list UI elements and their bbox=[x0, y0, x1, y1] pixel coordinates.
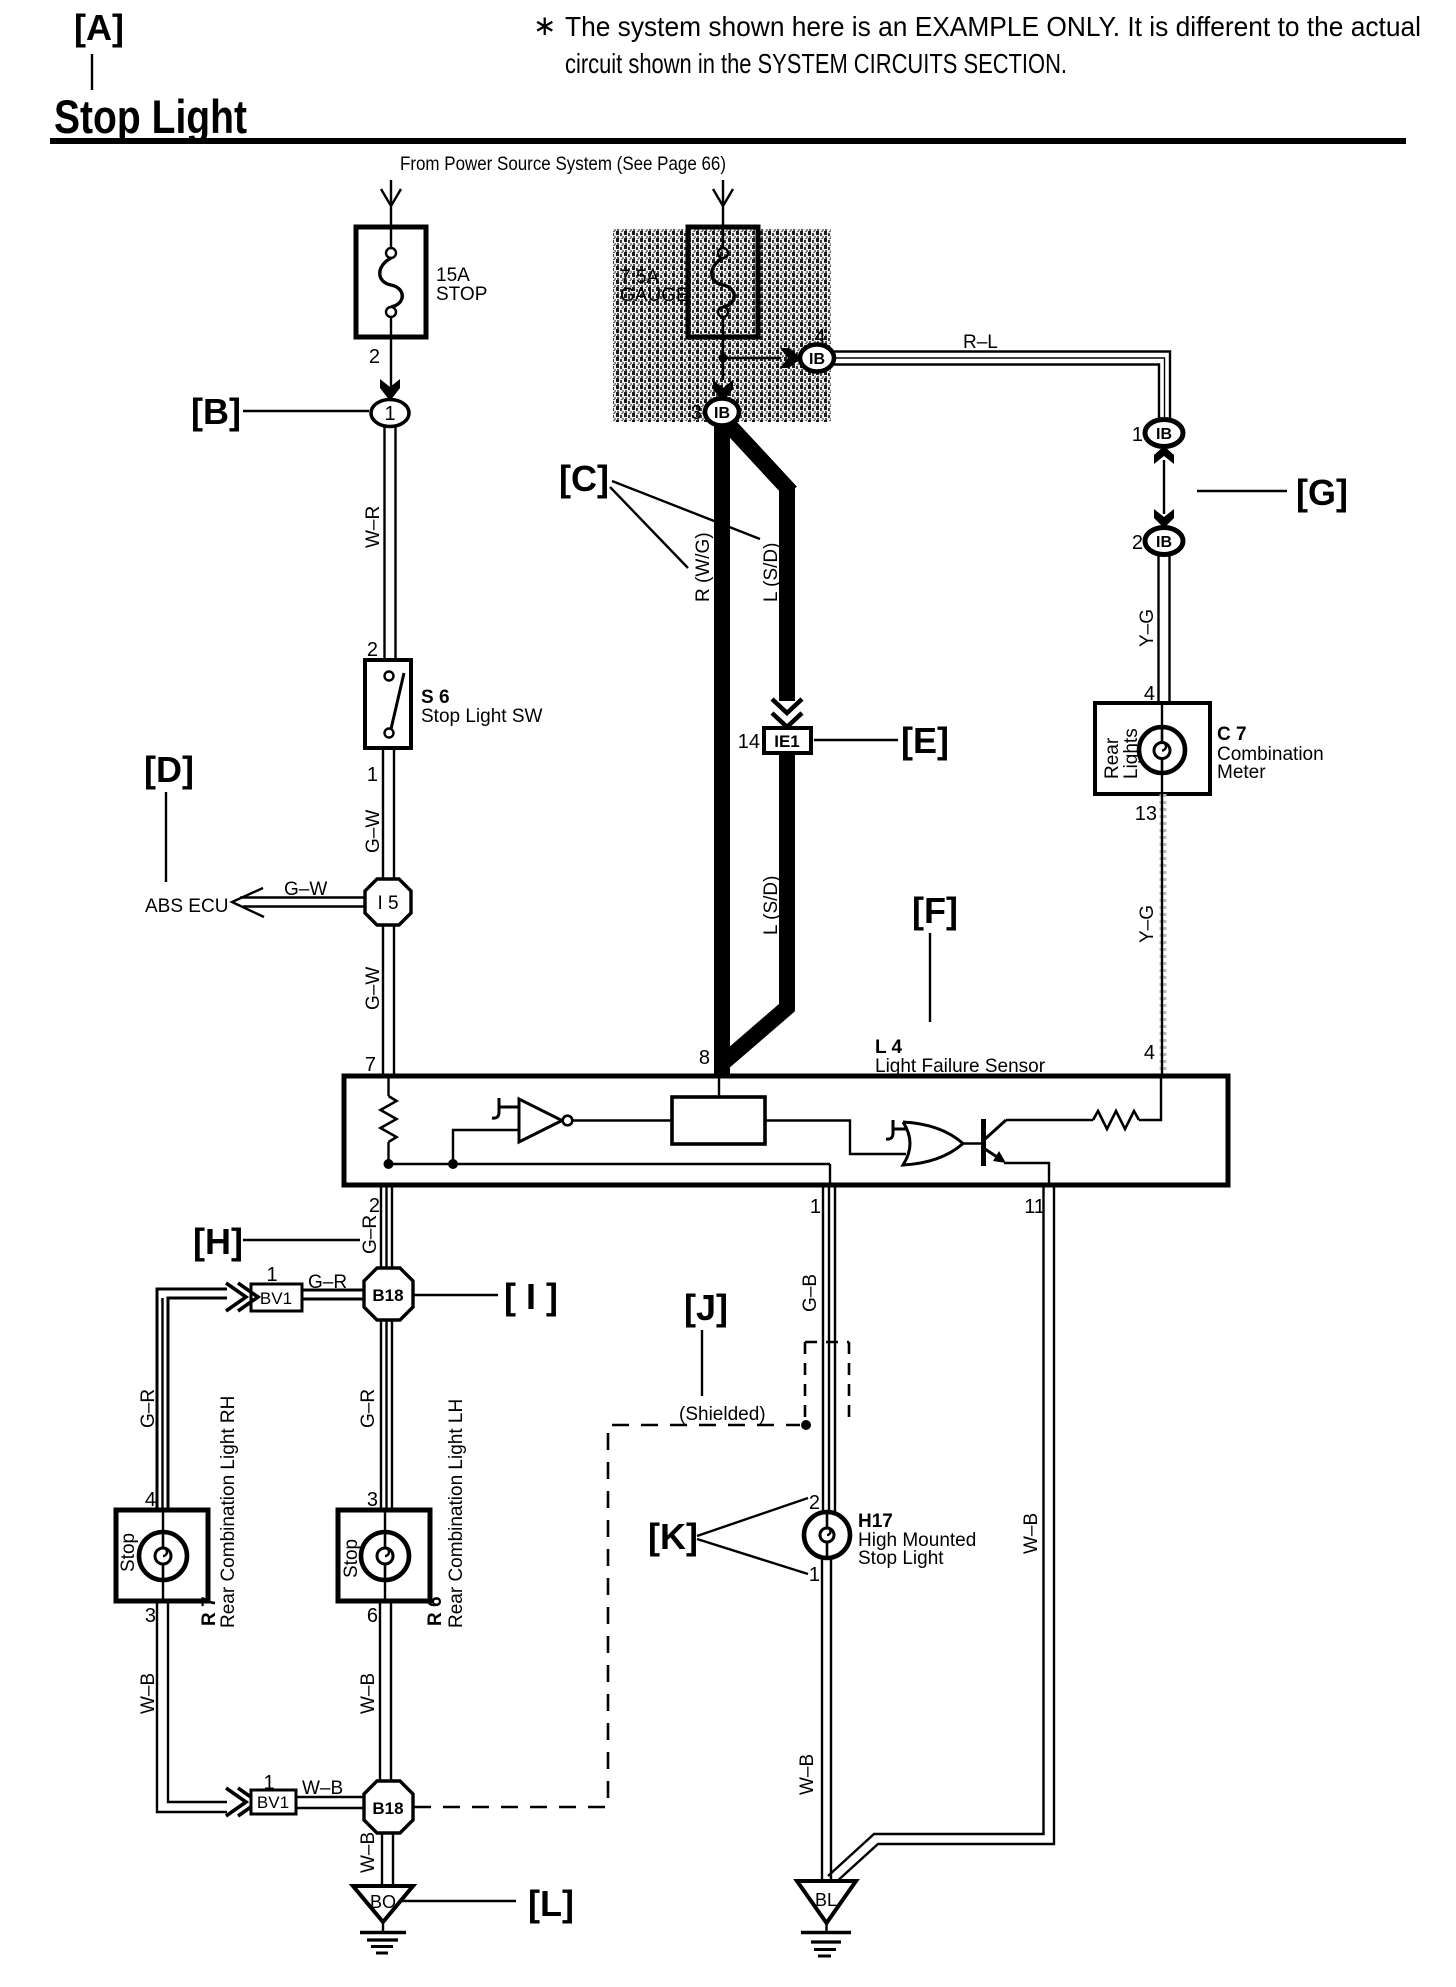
svg-text:G–B: G–B bbox=[800, 1274, 821, 1312]
svg-text:G–R: G–R bbox=[358, 1389, 379, 1428]
svg-text:2: 2 bbox=[367, 639, 378, 661]
label R6 Rear Combination Light LH bbox=[425, 1399, 467, 1628]
dashed shield line from B18 bbox=[414, 1425, 800, 1807]
label [E] bbox=[814, 720, 949, 761]
svg-text:7: 7 bbox=[365, 1054, 376, 1076]
label [K] bbox=[648, 1498, 808, 1574]
wire between IB connectors bbox=[1163, 460, 1165, 514]
svg-text:1: 1 bbox=[367, 764, 378, 786]
chevrons into BV1 lower bbox=[226, 1788, 258, 1816]
svg-text:G–R: G–R bbox=[360, 1215, 381, 1254]
svg-text:L 4: L 4 bbox=[875, 1037, 903, 1058]
svg-text:[H]: [H] bbox=[193, 1221, 243, 1262]
svg-text:Lights: Lights bbox=[1121, 728, 1142, 779]
thick wire L (S/D) branch down to IE1 bbox=[728, 424, 791, 701]
svg-text:4: 4 bbox=[1144, 1042, 1155, 1064]
svg-text:13: 13 bbox=[1135, 803, 1157, 825]
arrow up into IB 1 bbox=[1154, 446, 1174, 464]
node label [A] bbox=[74, 7, 124, 90]
svg-text:8: 8 bbox=[699, 1047, 710, 1069]
wire OR to transistor base bbox=[963, 1142, 981, 1144]
svg-text:ABS ECU: ABS ECU bbox=[145, 896, 228, 917]
svg-text:Stop Light: Stop Light bbox=[858, 1548, 944, 1569]
OR gate bbox=[903, 1122, 963, 1165]
wire G-R left corner down to R7 bbox=[138, 1289, 227, 1511]
svg-text:3: 3 bbox=[691, 402, 702, 424]
wire from power source to fuse STOP bbox=[381, 180, 401, 227]
arrow down into IB 2 bbox=[1154, 509, 1174, 528]
wire W-R ellipse to stop light switch bbox=[363, 427, 396, 660]
wire G-R sensor pin 2 to connector B18 bbox=[360, 1185, 392, 1269]
svg-text:Stop Light SW: Stop Light SW bbox=[421, 706, 543, 727]
title Stop Light bbox=[50, 90, 1406, 144]
svg-text:15A: 15A bbox=[436, 265, 470, 286]
wire W-B sensor pin 11 down and left to BL bbox=[828, 1185, 1054, 1884]
junction dot left bbox=[384, 1159, 394, 1169]
arrow right into IB bbox=[780, 348, 801, 368]
trigger symbol at OR gate bbox=[886, 1120, 906, 1139]
timer block rectangle bbox=[672, 1097, 765, 1144]
connector B18 upper octagon bbox=[364, 1268, 413, 1320]
note text bbox=[533, 10, 1421, 79]
svg-text:Y–G: Y–G bbox=[1137, 609, 1158, 647]
rear combination light RH R7 bbox=[116, 1510, 208, 1601]
svg-text:C 7: C 7 bbox=[1217, 724, 1247, 745]
wire G-R B18 down to R6 bbox=[358, 1320, 392, 1511]
svg-text:W–B: W–B bbox=[797, 1754, 818, 1795]
svg-text:Stop Light: Stop Light bbox=[54, 90, 247, 143]
svg-text:1: 1 bbox=[1132, 424, 1143, 446]
connector IB (right branch) bbox=[800, 345, 834, 372]
svg-text:R (W/G): R (W/G) bbox=[693, 532, 714, 602]
svg-text:1: 1 bbox=[810, 1196, 821, 1218]
connector BV1 upper bbox=[251, 1264, 302, 1311]
wire G-R B18 to BV1 bbox=[302, 1272, 364, 1299]
svg-text:[G]: [G] bbox=[1296, 472, 1348, 513]
svg-text:R 6: R 6 bbox=[425, 1596, 446, 1626]
svg-text:L (S/D): L (S/D) bbox=[761, 543, 782, 602]
svg-text:IE1: IE1 bbox=[774, 732, 800, 751]
svg-text:W–B: W–B bbox=[358, 1832, 379, 1873]
label [ I ] bbox=[414, 1276, 558, 1317]
svg-text:I 5: I 5 bbox=[377, 893, 398, 914]
arrow down into node 1 bbox=[380, 379, 400, 401]
internal bottom wire bbox=[389, 1163, 831, 1165]
connector B18 lower octagon bbox=[364, 1781, 413, 1833]
svg-text:BV1: BV1 bbox=[257, 1793, 289, 1812]
svg-text:STOP: STOP bbox=[436, 284, 487, 305]
svg-text:Rear Combination Light LH: Rear Combination Light LH bbox=[446, 1399, 467, 1628]
svg-text:S 6: S 6 bbox=[421, 687, 450, 708]
light failure sensor L4 box bbox=[344, 1076, 1228, 1185]
svg-text:The system shown here is an EX: The system shown here is an EXAMPLE ONLY… bbox=[565, 11, 1421, 42]
arrow down into IB pin 3 bbox=[713, 380, 733, 402]
svg-text:B18: B18 bbox=[372, 1799, 403, 1818]
label From Power Source System bbox=[400, 153, 726, 175]
ground symbol below BL bbox=[801, 1923, 851, 1956]
connector BV1 lower bbox=[251, 1772, 296, 1814]
svg-text:[K]: [K] bbox=[648, 1516, 698, 1557]
svg-text:[J]: [J] bbox=[684, 1287, 728, 1328]
svg-text:L (S/D): L (S/D) bbox=[761, 876, 782, 935]
wire resistor to pin 4 bbox=[1139, 1076, 1161, 1120]
svg-text:2: 2 bbox=[809, 1492, 820, 1514]
junction dot bbox=[719, 354, 728, 363]
combination meter C7 bbox=[1095, 703, 1324, 794]
svg-text:[C]: [C] bbox=[559, 458, 609, 499]
svg-text:Y–G: Y–G bbox=[1137, 905, 1158, 943]
svg-text:Meter: Meter bbox=[1217, 762, 1266, 783]
svg-text:BO: BO bbox=[370, 1892, 396, 1912]
svg-text:W–B: W–B bbox=[302, 1778, 343, 1799]
svg-text:11: 11 bbox=[1024, 1196, 1045, 1218]
svg-text:G–R: G–R bbox=[138, 1389, 159, 1428]
wire internal to pin 1 bbox=[829, 1164, 831, 1185]
thick wire R (W/G) down to sensor pin 8 bbox=[693, 425, 722, 1074]
wire R-L triple line to right and down bbox=[834, 332, 1170, 422]
svg-text:IB: IB bbox=[714, 405, 730, 422]
switch S6 Stop Light SW bbox=[365, 660, 543, 748]
connector IE1 bbox=[764, 728, 811, 753]
svg-text:[L]: [L] bbox=[528, 1883, 574, 1924]
wire W-B R6 to B18 lower bbox=[358, 1601, 391, 1782]
wire emitter to pin 11 bbox=[1004, 1163, 1049, 1185]
high mounted stop light H17 bulb bbox=[804, 1511, 976, 1569]
svg-text:[B]: [B] bbox=[191, 391, 241, 432]
label [B] bbox=[191, 391, 369, 432]
svg-text:[E]: [E] bbox=[901, 720, 949, 761]
svg-text:Rear Combination Light RH: Rear Combination Light RH bbox=[218, 1396, 239, 1628]
wire collector to resistor bbox=[1006, 1119, 1093, 1121]
wire Y-G IB2 to combination meter bbox=[1137, 554, 1170, 703]
svg-text:From Power Source System (See: From Power Source System (See Page 66) bbox=[400, 153, 726, 175]
svg-text:W–B: W–B bbox=[1021, 1513, 1042, 1554]
transistor Q1 bbox=[984, 1119, 1007, 1166]
svg-text:IB: IB bbox=[1156, 426, 1172, 443]
wire Y-G C7 to sensor pin 4 bbox=[1137, 794, 1163, 1076]
svg-text:BV1: BV1 bbox=[260, 1289, 292, 1308]
svg-text:Stop: Stop bbox=[118, 1533, 139, 1572]
label [F] bbox=[912, 890, 958, 1022]
svg-text:Rear: Rear bbox=[1102, 737, 1123, 779]
label [L] bbox=[400, 1883, 574, 1924]
double chevron arrow into IE1 bbox=[772, 699, 802, 727]
rear combination light LH R6 bbox=[338, 1510, 430, 1601]
svg-text:∗: ∗ bbox=[533, 10, 556, 41]
resistor left inside sensor bbox=[381, 1076, 397, 1165]
svg-text:W–B: W–B bbox=[358, 1673, 379, 1714]
chevrons into BV1 upper bbox=[226, 1283, 258, 1311]
svg-text:B18: B18 bbox=[372, 1286, 403, 1305]
junction dot 2 bbox=[448, 1159, 458, 1169]
connector IB 2 right bbox=[1145, 528, 1183, 555]
svg-text:[ I ]: [ I ] bbox=[504, 1276, 558, 1317]
thick wire L (S/D) IE1 down to sensor pin 8 bbox=[724, 753, 790, 1062]
svg-text:G–W: G–W bbox=[363, 810, 384, 853]
connector I5 octagon bbox=[365, 879, 411, 925]
svg-text:2: 2 bbox=[369, 1195, 380, 1217]
svg-text:R–L: R–L bbox=[963, 332, 998, 353]
svg-text:Light Failure Sensor: Light Failure Sensor bbox=[875, 1056, 1046, 1077]
svg-text:W–B: W–B bbox=[138, 1673, 159, 1714]
svg-text:GAUGE: GAUGE bbox=[620, 285, 689, 306]
svg-text:[D]: [D] bbox=[144, 749, 194, 790]
wire from power source to fuse GAUGE bbox=[713, 180, 733, 227]
svg-text:IB: IB bbox=[1156, 534, 1172, 551]
label [H] bbox=[193, 1221, 360, 1262]
svg-text:1: 1 bbox=[809, 1564, 820, 1586]
svg-text:[F]: [F] bbox=[912, 890, 958, 931]
svg-text:H17: H17 bbox=[858, 1511, 893, 1532]
svg-text:IB: IB bbox=[809, 351, 825, 368]
wire fuse to junction B bbox=[390, 337, 392, 400]
svg-text:(Shielded): (Shielded) bbox=[679, 1404, 766, 1425]
svg-text:G–W: G–W bbox=[284, 879, 327, 900]
label L 4 Light Failure Sensor bbox=[875, 1037, 1046, 1077]
junction dot on shield bbox=[801, 1420, 811, 1430]
fuse 7.5A GAUGE bbox=[620, 227, 758, 337]
label [D] bbox=[144, 749, 194, 882]
wire G-W to ABS ECU with arrow bbox=[145, 879, 365, 917]
wire inverter to timer block bbox=[573, 1119, 672, 1121]
label [C] bbox=[559, 458, 760, 568]
svg-text:Stop: Stop bbox=[341, 1539, 362, 1578]
svg-text:W–R: W–R bbox=[363, 506, 384, 548]
wire pin 8 to timer block bbox=[718, 1076, 720, 1097]
inverter gate bbox=[519, 1099, 572, 1142]
wire W-B BV1 to B18 lower bbox=[296, 1778, 364, 1808]
wire W-B B18 to ground BO bbox=[358, 1832, 393, 1887]
svg-text:6: 6 bbox=[367, 1605, 378, 1627]
ground BO triangle bbox=[353, 1886, 413, 1922]
wire junction to inverter input bbox=[453, 1130, 519, 1164]
svg-text:[A]: [A] bbox=[74, 7, 124, 48]
node [B] ellipse 1 bbox=[371, 400, 409, 427]
svg-text:3: 3 bbox=[145, 1605, 156, 1627]
svg-text:G–R: G–R bbox=[308, 1272, 347, 1293]
connector IB 1 right bbox=[1145, 420, 1183, 447]
svg-text:2: 2 bbox=[369, 346, 380, 368]
svg-text:circuit shown in the SYSTEM CI: circuit shown in the SYSTEM CIRCUITS SEC… bbox=[565, 48, 1067, 79]
label [G] bbox=[1197, 472, 1348, 513]
wire timer block to OR gate bbox=[765, 1121, 906, 1155]
wire W-B R7 down to corner to BV1 lower bbox=[138, 1601, 227, 1812]
ground BL triangle bbox=[797, 1881, 856, 1923]
wire W-B H17 down to ground BL bbox=[797, 1558, 831, 1882]
wire G-W switch to connector I5 bbox=[363, 748, 394, 880]
resistor right inside sensor bbox=[1093, 1111, 1139, 1129]
dashed shield box around G-B wire bbox=[805, 1342, 849, 1425]
svg-text:1: 1 bbox=[384, 403, 395, 425]
wire G-B sensor pin 1 down to H17 bbox=[800, 1185, 835, 1513]
svg-text:2: 2 bbox=[1132, 532, 1143, 554]
halftone shading 7.5A GAUGE area bbox=[613, 229, 831, 422]
svg-text:R 7: R 7 bbox=[199, 1596, 220, 1626]
fuse 15A STOP bbox=[356, 227, 487, 337]
wire G-W I5 to light failure sensor pin 7 bbox=[363, 925, 394, 1076]
label [J] bbox=[679, 1287, 766, 1425]
wire fuse GAUGE to junction bbox=[722, 337, 724, 380]
svg-text:14: 14 bbox=[738, 731, 760, 753]
trigger symbol at inverter bbox=[492, 1098, 519, 1118]
svg-text:BL: BL bbox=[815, 1890, 837, 1910]
svg-text:G–W: G–W bbox=[363, 967, 384, 1010]
wire junction to connector IB pin 4 bbox=[723, 357, 781, 359]
connector IB pin 3 bbox=[705, 399, 739, 426]
label R7 Rear Combination Light RH bbox=[199, 1396, 239, 1628]
ground symbol below BO bbox=[360, 1922, 406, 1953]
